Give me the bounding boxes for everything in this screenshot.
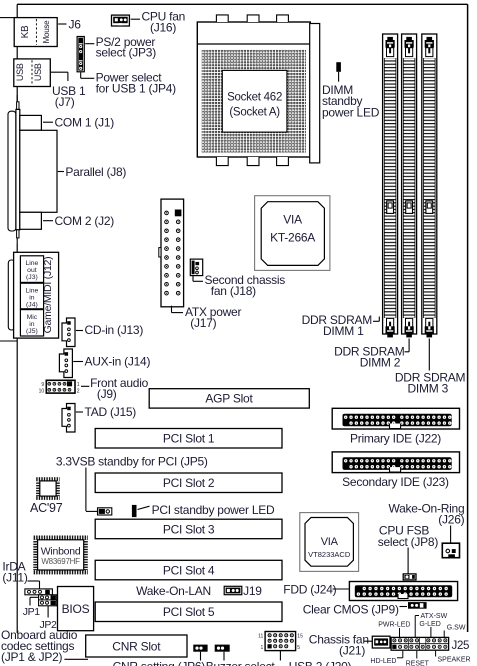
svg-text:DIMM 1: DIMM 1: [323, 324, 364, 338]
svg-text:VIA: VIA: [283, 212, 302, 226]
svg-text:Secondary IDE (J23): Secondary IDE (J23): [342, 475, 449, 489]
label AUX-in (J14): [73, 361, 83, 363]
svg-text:(JP1 & JP2): (JP1 & JP2): [1, 650, 63, 664]
svg-text:COM 1 (J1): COM 1 (J1): [55, 115, 115, 129]
svg-text:(J26): (J26): [438, 513, 464, 527]
svg-text:PCI Slot 4: PCI Slot 4: [163, 564, 215, 578]
label J6: [58, 23, 66, 25]
label RESET: [416, 651, 418, 659]
connector J24 FDD: [349, 582, 457, 601]
chassis edge stub top-left: [0, 17, 14, 19]
connector J7 dual USB block: [14, 59, 51, 87]
svg-text:(J16): (J16): [150, 20, 176, 34]
svg-text:Mouse: Mouse: [42, 20, 51, 44]
label HD-LED: [397, 657, 403, 659]
svg-text:5: 5: [297, 645, 300, 651]
jumper JP8: [403, 574, 416, 580]
label ATX-SW: [414, 616, 416, 638]
svg-text:BIOS: BIOS: [62, 602, 90, 616]
PCI Slot 5: [95, 602, 282, 622]
connector J19 Wake-On-LAN: [224, 586, 242, 594]
svg-text:JP1: JP1: [23, 606, 40, 618]
label CD-in (J13): [76, 330, 83, 332]
svg-text:VIA: VIA: [321, 536, 339, 548]
svg-text:ATX-SW: ATX-SW: [421, 613, 448, 620]
svg-text:VT8233ACD: VT8233ACD: [308, 550, 351, 559]
svg-text:1: 1: [77, 382, 80, 388]
svg-text:(J3): (J3): [26, 274, 38, 281]
label COM 1 (J1): [43, 121, 53, 123]
svg-text:J25: J25: [452, 640, 470, 652]
AGP slot: [149, 389, 309, 408]
board outline right edge: [467, 4, 469, 632]
svg-text:PCI Slot 1: PCI Slot 1: [163, 432, 215, 446]
wire USB block to D-sub stack: [16, 95, 18, 102]
chip AC'97 codec: [36, 477, 60, 481]
svg-text:AUX-in (J14): AUX-in (J14): [85, 354, 151, 368]
svg-text:PWR-LED: PWR-LED: [378, 622, 410, 629]
svg-text:11: 11: [258, 634, 263, 640]
socket 462 top tabs: [216, 15, 228, 22]
svg-text:KT-266A: KT-266A: [270, 230, 315, 244]
socket 462 body: [197, 22, 310, 157]
connector J8 Parallel port: [20, 130, 57, 212]
connector J11 IrDA header: [25, 589, 53, 595]
chip BIOS: [58, 587, 94, 631]
svg-text:select (JP3): select (JP3): [96, 46, 157, 60]
svg-text:(J5): (J5): [26, 328, 38, 335]
jumper block JP1/JP2: [39, 595, 57, 606]
board outline left edge segments: [16, 4, 18, 18]
svg-text:(J17): (J17): [190, 316, 216, 330]
label Power select for USB 1 (JP4): [80, 72, 82, 78]
svg-text:15: 15: [297, 634, 303, 640]
connector J25 front panel header: [391, 637, 449, 650]
label CPU fan (J16): [131, 18, 140, 20]
connector J6 KB/Mouse block: [14, 18, 57, 47]
connector J22 Primary IDE: [332, 408, 459, 429]
jumper bottom second: [215, 645, 230, 652]
svg-text:DIMM 2: DIMM 2: [360, 355, 401, 369]
svg-text:G-LED: G-LED: [419, 621, 440, 628]
svg-text:power LED: power LED: [322, 106, 380, 120]
svg-text:10: 10: [39, 388, 45, 394]
connector J18 second chassis fan: [190, 259, 202, 276]
svg-text:Game/MIDI (J12): Game/MIDI (J12): [42, 257, 54, 334]
label Second chassis fan (J18): [192, 276, 194, 282]
svg-text:TAD (J15): TAD (J15): [85, 405, 137, 419]
label USB 1 (J7): [51, 71, 68, 73]
connector J14 AUX-in: [59, 349, 72, 378]
PCI Slot 1: [95, 429, 282, 449]
svg-text:CNR Slot: CNR Slot: [112, 640, 161, 654]
svg-text:fan (J18): fan (J18): [211, 284, 256, 298]
svg-text:1: 1: [261, 645, 264, 651]
svg-text:9: 9: [41, 382, 44, 388]
PCI Slot 2: [95, 473, 282, 493]
svg-text:3.3VSB standby for PCI (JP5): 3.3VSB standby for PCI (JP5): [56, 454, 208, 468]
connector J17 ATX power: [161, 199, 184, 307]
socket 462 pin grid: [202, 50, 306, 71]
label JP1: [30, 596, 39, 598]
DIMM slot DIMM 3: [422, 34, 437, 334]
svg-text:in: in: [29, 295, 35, 302]
jumper JP9: [408, 602, 427, 609]
connector J2 COM 2: [20, 212, 42, 229]
svg-text:J6: J6: [69, 17, 82, 31]
svg-text:Line: Line: [25, 288, 38, 295]
svg-text:Winbond: Winbond: [41, 546, 81, 558]
LED DIMM standby power: [336, 62, 341, 72]
svg-text:Socket 462: Socket 462: [227, 91, 282, 103]
wire below D-sub: [16, 238, 18, 244]
svg-text:2: 2: [77, 388, 80, 394]
svg-text:USB 2 (J20): USB 2 (J20): [289, 659, 352, 666]
svg-text:G.SW: G.SW: [447, 625, 466, 632]
connector J9 front audio header: [46, 380, 75, 393]
svg-text:(Socket A): (Socket A): [229, 106, 280, 118]
svg-text:PCI standby power LED: PCI standby power LED: [152, 503, 275, 517]
chip U-SB VIA VT8233ACD: [300, 513, 359, 572]
svg-text:RESET: RESET: [406, 661, 430, 666]
jumper JP5: [98, 508, 112, 515]
connector J20 USB 2 header: [265, 632, 296, 651]
PCI Slot 3: [95, 519, 282, 539]
label TAD (J15): [76, 411, 83, 413]
svg-text:AC'97: AC'97: [30, 501, 63, 515]
D-sub mounting bar: [17, 102, 19, 110]
svg-text:CD-in (J13): CD-in (J13): [85, 323, 144, 337]
connector J13 CD-in: [62, 318, 75, 347]
svg-text:(J9): (J9): [97, 387, 117, 401]
connector J15 TAD: [62, 404, 75, 433]
svg-text:Buzzer select: Buzzer select: [206, 659, 276, 666]
chip U-NB VIA KT-266A: [255, 196, 330, 271]
board outline top edge: [17, 3, 467, 5]
svg-text:SPEAKER: SPEAKER: [438, 656, 471, 663]
DIMM slot DIMM 2: [402, 34, 417, 334]
svg-text:PCI Slot 2: PCI Slot 2: [163, 476, 215, 490]
label ATX power (J17): [171, 306, 173, 313]
svg-text:AGP Slot: AGP Slot: [205, 392, 253, 406]
svg-text:(J4): (J4): [26, 302, 38, 309]
svg-text:Wake-On-LAN: Wake-On-LAN: [136, 584, 211, 598]
connector J12 Game/MIDI block: [8, 260, 15, 330]
svg-text:Parallel (J8): Parallel (J8): [65, 165, 126, 179]
svg-text:(J11): (J11): [2, 571, 27, 585]
socket 462 lever bar: [310, 24, 320, 163]
label Front audio (J9): [81, 385, 89, 387]
DIMM slot DIMM 1: [383, 34, 398, 334]
connector J16 CPU fan: [112, 15, 130, 26]
svg-text:USB: USB: [33, 63, 43, 81]
svg-text:KB: KB: [20, 25, 31, 38]
svg-text:Line: Line: [25, 260, 38, 267]
connector J23 Secondary IDE: [332, 452, 459, 473]
label JP2: [47, 606, 49, 618]
svg-text:Primary IDE (J22): Primary IDE (J22): [350, 432, 441, 446]
label SPEAKER: [435, 651, 437, 657]
svg-text:J19: J19: [243, 584, 262, 598]
svg-text:(J21): (J21): [339, 643, 365, 657]
connector J1 COM 1: [20, 115, 42, 130]
label COM 2 (J2): [43, 220, 53, 222]
svg-text:HD-LED: HD-LED: [370, 658, 396, 665]
connector J21 chassis fan: [372, 636, 390, 648]
svg-text:CNR setting (JP6): CNR setting (JP6): [113, 659, 206, 666]
svg-text:select (JP8): select (JP8): [378, 535, 439, 549]
connector J26 Wake-On-Ring: [442, 543, 459, 558]
label Parallel (J8): [58, 171, 64, 173]
svg-text:for USB 1 (JP4): for USB 1 (JP4): [96, 82, 177, 96]
svg-text:PCI Slot 5: PCI Slot 5: [163, 605, 215, 619]
chip Winbond W83697HF: [33, 536, 88, 540]
socket 462 bottom tabs: [216, 157, 228, 166]
PCI Slot 4: [95, 560, 282, 580]
svg-text:PCI Slot 3: PCI Slot 3: [163, 522, 215, 536]
svg-text:(J7): (J7): [55, 95, 75, 109]
D-sub bracket outline: [8, 111, 16, 231]
svg-text:W83697HF: W83697HF: [41, 557, 80, 566]
socket 462 center cavity: [222, 70, 287, 132]
svg-text:out: out: [27, 267, 37, 274]
chassis edge stub mid-left: [0, 340, 17, 342]
svg-text:FDD (J24): FDD (J24): [283, 583, 336, 597]
svg-text:in: in: [29, 321, 35, 328]
jumper block JP3/JP4 power select strip: [77, 37, 84, 72]
svg-text:USB: USB: [15, 63, 25, 81]
svg-text:DIMM 3: DIMM 3: [408, 382, 449, 396]
jumper JP6 CNR setting: [193, 645, 207, 652]
svg-text:Clear CMOS (JP9): Clear CMOS (JP9): [303, 602, 399, 616]
LED PCI standby power: [132, 505, 137, 517]
CNR slot: [86, 635, 187, 657]
svg-text:Mic: Mic: [27, 314, 38, 321]
label PS/2 power select (JP3): [85, 43, 94, 45]
svg-text:COM 2 (J2): COM 2 (J2): [55, 214, 115, 228]
